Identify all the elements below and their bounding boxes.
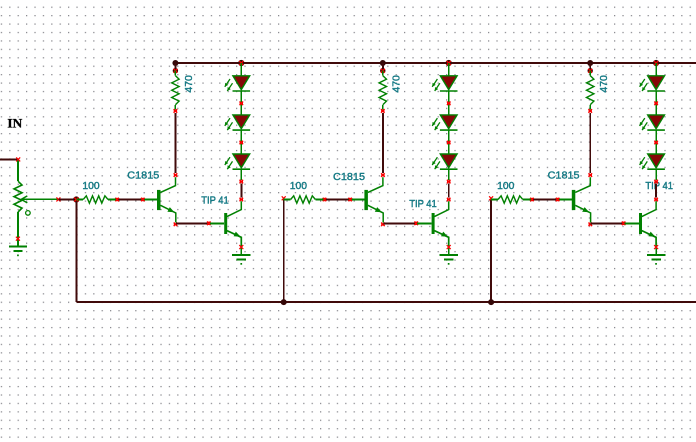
node Q2a collector pin	[381, 173, 385, 177]
node rail junction LED3	[653, 60, 659, 66]
resistor R470-1 body	[174, 71, 176, 76]
svg-text:C1815: C1815	[548, 171, 580, 182]
node bottom rail junction 2	[281, 299, 287, 305]
transistor Q2a C1815	[349, 177, 384, 222]
node Q2b emitter pin	[447, 245, 451, 249]
wire rail to R470-1	[174, 63, 176, 71]
node rail junction LED2	[446, 60, 452, 66]
wire base drop 3	[490, 200, 492, 303]
node Q3a base pin	[556, 198, 560, 202]
node Q3a collector pin	[589, 173, 593, 177]
wire LED chain to Q1b collector	[240, 183, 242, 197]
node R470-2 top pin	[380, 68, 385, 73]
node Q2b base pin	[414, 222, 418, 226]
wire LED32 to LED33	[655, 131, 657, 154]
node LED23 bottom pin	[447, 180, 451, 184]
potentiometer RV1 body	[14, 181, 22, 212]
wire LED12 to LED13	[240, 131, 242, 154]
node R470-2 bottom pin	[381, 109, 385, 113]
svg-text:C1815: C1815	[333, 172, 365, 183]
wire LED22 to LED23	[448, 131, 450, 154]
wire wiper to input node	[58, 199, 73, 201]
wire pot top lead	[17, 161, 19, 182]
wire rail to R470-2	[382, 63, 384, 71]
node rail junction R1	[172, 60, 178, 66]
LED D31	[640, 76, 665, 91]
wire Q3a emitter to Q3b base	[591, 222, 623, 224]
node LED32 junction	[654, 141, 658, 145]
svg-text:100: 100	[497, 181, 515, 192]
node base drop corner 2	[282, 196, 286, 200]
svg-text:470: 470	[391, 75, 402, 93]
node input junction	[73, 196, 79, 202]
transistor Q3b TIP41	[625, 201, 657, 246]
wire Q2a emitter to Q2b base	[383, 222, 415, 224]
wire Q3b emitter to ground	[655, 246, 657, 255]
node base drop corner 3	[489, 196, 493, 200]
potentiometer wiper arrow	[21, 196, 58, 203]
LED D13	[225, 154, 250, 169]
node R470-3 top pin	[588, 68, 593, 73]
node LED22 junction	[447, 141, 451, 145]
transistor Q2b TIP41	[417, 201, 449, 246]
ground stage 1	[232, 255, 250, 265]
node LED12 junction	[240, 141, 244, 145]
potentiometer marker o	[26, 211, 31, 216]
resistor R100-3 body	[491, 199, 498, 201]
node Q1b emitter pin	[239, 245, 243, 249]
LED D21	[432, 76, 457, 91]
svg-text:TIP 41: TIP 41	[201, 196, 229, 207]
svg-text:TIP 41: TIP 41	[645, 181, 673, 192]
wire R100-1 to base	[118, 199, 141, 201]
node Q3b emitter pin	[654, 245, 658, 249]
stage 3	[488, 60, 673, 305]
resistor R100-1 body	[76, 199, 83, 201]
wire pot bottom lead	[17, 212, 19, 246]
resistor R470-2 body	[382, 71, 384, 76]
wire rail to LED21	[448, 63, 450, 75]
wire LED chain to Q3b collector	[655, 183, 657, 197]
ground stage 3	[647, 255, 665, 265]
node LED33 bottom pin	[654, 180, 658, 184]
wire top rail	[175, 62, 696, 64]
LED D32	[640, 115, 665, 130]
node Q1a collector pin	[174, 173, 178, 177]
wire LED21 to LED22	[448, 92, 450, 115]
svg-text:470: 470	[599, 75, 610, 93]
node LED13 bottom pin	[240, 180, 244, 184]
transistor Q1b TIP41	[210, 201, 242, 246]
resistor R470-3 body	[589, 71, 591, 76]
wire Q2b emitter to ground	[448, 246, 450, 255]
wire LED11 to LED12	[240, 92, 242, 115]
node Q1a emitter pin	[174, 223, 178, 227]
stage 2	[281, 60, 458, 305]
wire LED23 bottom lead	[448, 170, 450, 180]
node LED21 junction	[447, 102, 451, 106]
node rail junction R3	[587, 60, 593, 66]
wire R470-3 to Q3a collector	[589, 113, 591, 173]
wire R470-2 to Q2a collector	[382, 113, 384, 173]
wire Q1a emitter to Q1b base	[176, 222, 208, 224]
transistor Q1a C1815	[141, 177, 176, 222]
wire rail to R470-3	[589, 63, 591, 71]
node LED31 junction	[654, 102, 658, 106]
ground stage 2	[440, 255, 458, 265]
LED D11	[225, 76, 250, 91]
node input pin	[16, 157, 20, 161]
node R100-2 right pin	[323, 198, 327, 202]
resistor R100-2 body	[284, 199, 291, 201]
wire rail to LED31	[655, 63, 657, 75]
svg-text:C1815: C1815	[127, 171, 159, 182]
LED D23	[432, 154, 457, 169]
node Q1b collector pin	[240, 198, 244, 202]
node Q1b base pin	[207, 222, 211, 226]
node Q2a base pin	[348, 198, 352, 202]
svg-text:100: 100	[290, 181, 308, 192]
svg-text:470: 470	[184, 75, 195, 93]
wire base drop 2	[283, 200, 285, 303]
node rail junction R2	[380, 60, 386, 66]
wire R470-1 to Q1a collector	[174, 113, 176, 173]
node bottom rail junction 3	[488, 299, 494, 305]
node R100-3 right pin	[530, 198, 534, 202]
stage 1	[76, 60, 696, 265]
node Q3a emitter pin	[589, 223, 593, 227]
wire LED33 bottom lead	[655, 170, 657, 180]
node R470-3 bottom pin	[588, 109, 592, 113]
wire R100-3 to base	[533, 199, 556, 201]
wire rail to LED11	[240, 63, 242, 75]
node pot ground pin	[16, 237, 20, 241]
wire R100-2 to base	[325, 199, 348, 201]
transistor Q3a C1815	[556, 177, 591, 222]
ground input	[9, 246, 27, 256]
node Q2a emitter pin	[381, 223, 385, 227]
wire LED31 to LED32	[655, 92, 657, 115]
svg-text:100: 100	[82, 181, 100, 192]
node Q3b base pin	[622, 222, 626, 226]
wire Q1b emitter to ground	[240, 246, 242, 255]
node R100-1 right pin	[115, 198, 119, 202]
node wiper pin	[56, 197, 60, 201]
node Q1a base pin	[141, 198, 145, 202]
node R470-1 top pin	[173, 68, 178, 73]
svg-text:TIP 41: TIP 41	[409, 199, 437, 210]
node rail junction LED1	[238, 60, 244, 66]
svg-text:IN: IN	[7, 117, 22, 131]
wire input left	[0, 158, 18, 160]
wire LED13 bottom lead	[240, 170, 242, 180]
LED D22	[432, 115, 457, 130]
LED D12	[225, 115, 250, 130]
wire LED chain to Q2b collector	[448, 183, 450, 197]
node Q3b collector pin	[654, 198, 658, 202]
node LED11 junction	[240, 102, 244, 106]
LED D33	[640, 154, 665, 169]
wire input drop	[75, 201, 77, 302]
node R470-1 bottom pin	[174, 109, 178, 113]
wire bottom rail	[76, 301, 696, 303]
node Q2b collector pin	[447, 198, 451, 202]
